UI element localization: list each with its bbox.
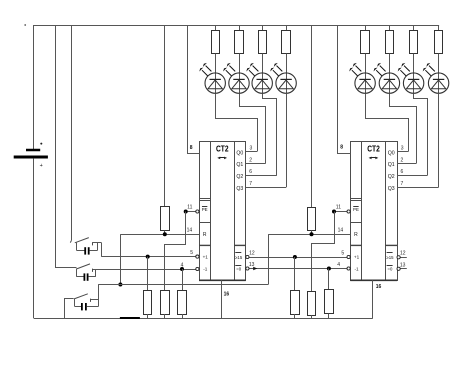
node pull resistor R13 junction (180, 267, 184, 271)
wire to resistor R13 (182, 269, 184, 290)
svg-text:Q1: Q1 (388, 162, 395, 168)
wire DD2 PE net down-jog to resistor R15 (312, 212, 335, 292)
wire DD1 Q2 pin 6 (246, 175, 277, 177)
DD2 +1 inversion bubble (347, 255, 350, 258)
wire DD1 R net down to reset bus (120, 234, 122, 284)
resistor R7 (410, 31, 418, 54)
capacitor C2 right lead (88, 276, 95, 278)
wire DD1 Q0 pin 3 (246, 151, 257, 153)
wire DD2 pin 13 stub (400, 268, 407, 270)
wire top rail to button SB1 (71, 25, 73, 240)
DD2 right strip divider (385, 244, 397, 246)
svg-text:2: 2 (401, 157, 404, 163)
svg-text:3: 3 (401, 146, 404, 152)
wire to resistor R11 (147, 257, 149, 290)
svg-text:12: 12 (400, 251, 406, 257)
wire resistor R1 top lead (215, 25, 217, 31)
wire resistor R3 top lead (262, 25, 264, 31)
DD1 carry inversion bubble pin 12 (246, 255, 249, 258)
wire resistor R11 bottom lead (147, 314, 149, 318)
DD1 right strip divider (234, 244, 246, 246)
DD1 borrow inversion bubble pin 13 (246, 267, 249, 270)
LED VD6 (374, 63, 400, 93)
wire to resistor R14 (294, 257, 296, 290)
wire DD2 pin 16 to bottom rail (372, 280, 374, 318)
battery polarity dot mark (40, 143, 42, 145)
node pull resistor R11 junction (146, 255, 150, 259)
LED VD5 (349, 63, 375, 93)
DD1 -1 inversion bubble (196, 267, 199, 270)
svg-text:Q0: Q0 (236, 150, 243, 156)
svg-text:-1: -1 (355, 267, 360, 272)
wire button SB3 output riser to reset bus (98, 285, 100, 300)
svg-text:8: 8 (340, 144, 343, 150)
svg-text:PE: PE (353, 207, 359, 212)
svg-text:CT2: CT2 (367, 143, 380, 153)
wire resistor R6 top lead (389, 25, 391, 31)
wire LED VD1 cathode to DD1 Q0 (216, 94, 258, 152)
capacitor C3 plates (81, 303, 83, 310)
DD1 +1 inversion bubble (196, 255, 199, 258)
wire resistor R5 top lead (365, 25, 367, 31)
push button SB1 lever (75, 238, 89, 243)
wire DD2 Q2 pin 6 (397, 175, 427, 177)
svg-text:=0: =0 (236, 266, 242, 271)
DD1 borrow output =0 label (235, 265, 241, 267)
svg-text:8: 8 (190, 145, 193, 151)
svg-text:11: 11 (336, 205, 341, 211)
LED VD8 (423, 63, 449, 93)
svg-text:PE: PE (202, 207, 208, 212)
svg-text:13: 13 (400, 262, 406, 268)
resistor R10 (308, 208, 316, 231)
wire DD1 R pin 14 (120, 234, 199, 236)
wire LED VD6 cathode to DD2 Q1 (390, 94, 417, 164)
resistor R5 (361, 31, 370, 54)
wire resistor R7 top lead (413, 25, 415, 31)
wire resistor R8 top lead (438, 25, 440, 31)
resistor R9 (161, 207, 170, 231)
wire resistor R9 bottom lead (164, 231, 166, 235)
wire DD1 pin 16 to bottom rail (221, 280, 223, 318)
wire battery top lead (33, 25, 35, 149)
resistor R12 (161, 291, 170, 315)
resistor R8 (435, 31, 443, 54)
resistor R16 (325, 290, 334, 314)
resistor R6 (386, 31, 394, 54)
button SB1 pivot hook (70, 240, 71, 242)
wire to resistor R16 (328, 269, 330, 290)
node pull resistor R16 junction (327, 267, 331, 271)
svg-text:7: 7 (249, 181, 252, 187)
wire DD2 Q3 pin 7 (397, 187, 439, 189)
wire resistor R7 to LED VD7 (413, 54, 415, 94)
DD2 PE inversion bubble (347, 210, 350, 213)
wire LED VD4 cathode to DD1 Q3 (286, 93, 288, 187)
wire count-down net from button SB2 to DD1 -1 pin 4 (93, 269, 196, 271)
bold segment on bottom rail (120, 317, 140, 319)
svg-text:+1: +1 (203, 255, 209, 260)
DD1 PE inversion bubble (196, 210, 199, 213)
wire resistor R4 to LED VD4 (286, 54, 288, 94)
DD1 bidirectional arrow symbol (219, 157, 226, 159)
DD2 bottom edge bold (350, 279, 397, 281)
wire top rail to button SB2 (56, 26, 77, 268)
wire button SB3 to bottom rail (65, 299, 74, 319)
svg-text:16: 16 (224, 291, 230, 297)
DD1 left strip dividers (199, 198, 210, 200)
svg-text:3: 3 (250, 146, 253, 152)
LED VD2 (223, 63, 249, 93)
svg-text:+1: +1 (354, 255, 360, 260)
svg-text:Q0: Q0 (388, 150, 395, 156)
svg-text:≥15: ≥15 (235, 255, 243, 260)
capacitor C1 plates (84, 247, 86, 254)
svg-text:Q2: Q2 (388, 174, 395, 180)
LED VD3 (246, 63, 272, 93)
arrow mark on borrow wire (253, 267, 257, 270)
DD2 -1 inversion bubble (347, 267, 350, 270)
svg-text:-1: -1 (203, 267, 208, 272)
svg-text:2: 2 (249, 157, 252, 163)
LED VD1 (199, 63, 225, 93)
LED VD7 (398, 63, 424, 93)
DD2 left strip dividers (350, 198, 361, 200)
wire resistor R4 top lead (286, 25, 288, 31)
svg-text:14: 14 (338, 228, 344, 234)
push button SB2 lever (76, 264, 90, 269)
node pull resistor R14 junction (293, 255, 297, 259)
wire resistor R2 to LED VD2 (239, 54, 241, 94)
wire resistor R12 bottom lead (164, 314, 166, 318)
wire DD2 R pin 14 (268, 234, 350, 236)
wire button SB1 output riser (101, 243, 103, 257)
svg-text:Q3: Q3 (236, 186, 243, 192)
wire LED VD7 cathode to DD2 Q2 (414, 94, 428, 176)
resistor R13 (178, 291, 187, 315)
battery GB1 short plate (negative) (26, 149, 40, 152)
wire DD1 pin 13 borrow to DD2 -1 pin 4 (249, 268, 347, 270)
wire reset bus from button SB3 to DD2 R corner (98, 284, 268, 286)
node reset bus junction (118, 283, 122, 287)
svg-text:R: R (354, 232, 358, 238)
wire DD2 Q1 pin 2 (397, 163, 416, 165)
resistor R4 (282, 31, 291, 54)
wire LED VD2 cathode to DD1 Q1 (240, 94, 266, 164)
push button SB2 fixed contact tick (92, 269, 94, 272)
wire resistor R6 to LED VD6 (389, 54, 391, 94)
node DD2 PE junction (332, 210, 336, 214)
resistor R11 (144, 291, 152, 315)
DD2 carry output >=15 label (387, 252, 393, 254)
wire button SB1 contact to riser (93, 242, 102, 244)
resistor R3 (259, 31, 267, 54)
svg-text:5: 5 (341, 250, 344, 256)
stray mark near top-left corner (24, 24, 26, 26)
svg-text:Q3: Q3 (388, 186, 395, 192)
svg-text:5: 5 (190, 250, 193, 256)
capacitor C2 left lead (76, 269, 78, 277)
wire resistor R14 bottom lead (294, 314, 296, 318)
node DD1 PE junction (184, 210, 188, 214)
wire LED VD5 cathode to DD2 Q0 (366, 94, 409, 152)
wire resistor R1 to LED VD1 (215, 54, 217, 94)
DD2 borrow output =0 label (387, 265, 393, 267)
capacitor C2 plates (83, 273, 85, 280)
wire top rail to resistor R9 (164, 25, 166, 207)
wire DD1 Q1 pin 2 (246, 163, 266, 165)
svg-text:6: 6 (401, 169, 404, 175)
op-amp substitute: counter DD2 body (351, 142, 398, 281)
resistor R2 (235, 31, 244, 54)
wire DD2 Q0 pin 3 (397, 151, 408, 153)
svg-text:CT2: CT2 (216, 143, 229, 153)
wire bottom supply rail (34, 318, 373, 320)
wire resistor R5 to LED VD5 (365, 54, 367, 94)
resistor R1 (212, 31, 220, 54)
wire top supply rail (34, 25, 439, 27)
wire DD1 PE pin 11 (186, 211, 196, 213)
push button SB3 lever (74, 294, 88, 299)
wire count-up net from button SB1 to DD1 +1 pin 5 (101, 256, 196, 258)
LED VD4 (270, 63, 296, 93)
capacitor C3 right lead (87, 306, 99, 308)
svg-text:7: 7 (401, 181, 404, 187)
wire DD2 R net riser (268, 234, 270, 284)
wire DD2 PE pin 11 (334, 211, 347, 213)
DD2 borrow inversion bubble pin 13 (397, 267, 400, 270)
wire resistor R8 to LED VD8 (438, 54, 440, 94)
svg-text:≥15: ≥15 (386, 255, 394, 260)
capacitor C3 left lead (74, 299, 76, 307)
wire DD2 pin 12 stub (400, 257, 407, 259)
resistor R14 (291, 291, 300, 315)
capacitor C1 right lead (89, 250, 97, 252)
svg-text:=0: =0 (387, 266, 393, 271)
svg-text:14: 14 (187, 228, 193, 234)
DD2 bidirectional arrow symbol (370, 157, 377, 159)
wire DD1 pin 12 carry to DD2 +1 pin 5 (249, 257, 347, 259)
svg-text:12: 12 (249, 250, 255, 256)
resistor R15 (308, 292, 316, 316)
svg-text:6: 6 (249, 169, 252, 175)
wire resistor R3 to LED VD3 (262, 54, 264, 94)
svg-text:16: 16 (376, 284, 382, 290)
wire DD1 Q3 pin 7 (246, 187, 286, 189)
wire resistor R16 bottom lead (328, 314, 330, 319)
wire LED VD3 cathode to DD1 Q2 (263, 94, 277, 176)
wire resistor R13 bottom lead (182, 314, 184, 318)
wire resistor R15 bottom lead (311, 315, 313, 318)
svg-text:Q1: Q1 (236, 162, 243, 168)
DD2 carry inversion bubble pin 12 (397, 256, 400, 259)
svg-text:R: R (203, 232, 207, 238)
push button SB1 fixed contact tick (92, 242, 94, 245)
DD1 bottom edge bold (199, 279, 246, 281)
push button SB3 fixed contact tick (90, 299, 92, 302)
node R9 to R-wire junction (163, 232, 167, 236)
wire resistor R10 bottom lead (311, 230, 313, 234)
svg-text:4: 4 (337, 262, 340, 268)
capacitor C1 left lead (76, 243, 78, 251)
wire DD1 pin 8 from top rail (188, 26, 200, 154)
svg-text:Q2: Q2 (236, 174, 243, 180)
battery GB1 long plate (positive) (14, 156, 48, 159)
wire battery bottom lead (33, 159, 35, 319)
wire LED VD8 cathode to DD2 Q3 (438, 93, 440, 187)
op-amp substitute: counter DD1 body (200, 142, 246, 281)
wire top rail to resistor R10 (311, 25, 313, 208)
wire DD1 PE net down-jog to resistor R12 (165, 212, 186, 291)
wire resistor R2 top lead (239, 25, 241, 31)
wire button SB3 contact to riser (91, 299, 99, 301)
svg-text:+: + (40, 163, 43, 169)
node R10 to R-wire junction (310, 232, 314, 236)
svg-text:11: 11 (187, 205, 192, 211)
DD1 carry output >=15 label (235, 252, 241, 254)
wire DD2 pin 8 from top rail (338, 26, 351, 154)
